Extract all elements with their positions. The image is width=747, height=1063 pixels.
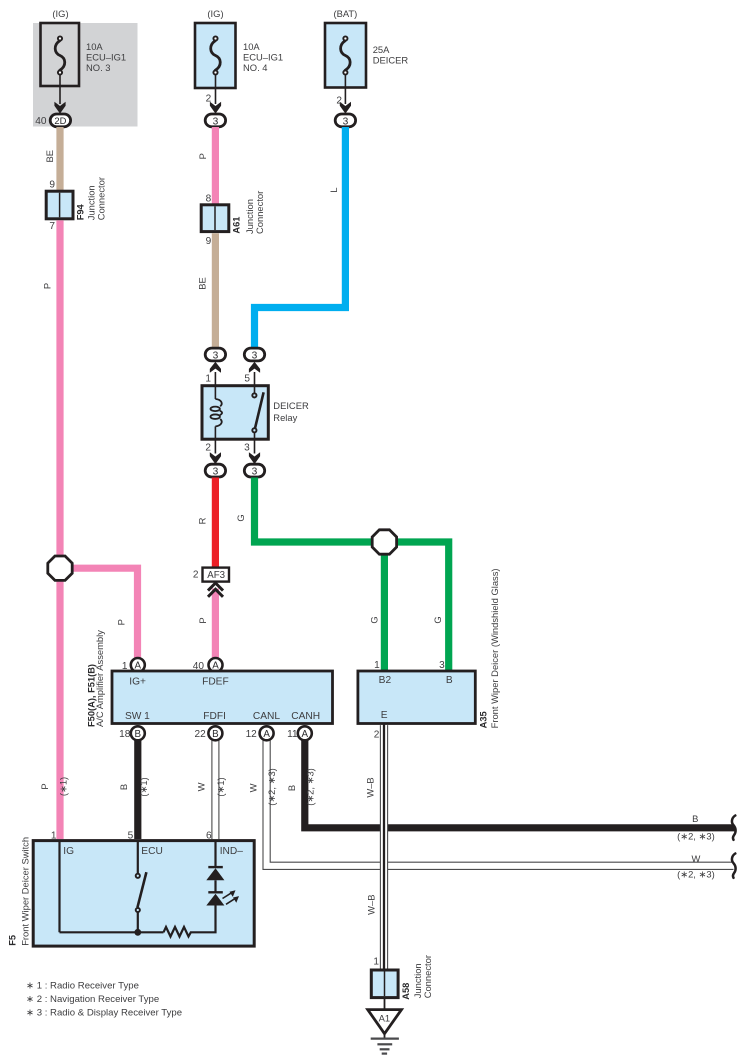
svg-text:IG+: IG+ — [129, 677, 146, 688]
splice octagon (pink) — [48, 556, 72, 580]
svg-text:∗ 1 : Radio Receiver Type: ∗ 1 : Radio Receiver Type — [26, 981, 139, 992]
relay pin2 arrow + node 3 — [205, 443, 225, 478]
svg-text:B: B — [118, 784, 129, 790]
svg-text:2: 2 — [205, 443, 211, 454]
svg-text:P: P — [42, 283, 53, 289]
svg-text:CANL: CANL — [253, 711, 281, 722]
svg-text:F94: F94 — [76, 203, 86, 220]
svg-text:G: G — [235, 514, 246, 521]
svg-text:3: 3 — [213, 116, 219, 127]
resistor — [164, 906, 216, 937]
svg-text:10A: 10A — [243, 41, 260, 52]
svg-text:A35: A35 — [478, 711, 488, 728]
node 3 (col3) — [335, 114, 355, 127]
svg-text:Front Wiper Deicer (Windshield: Front Wiper Deicer (Windshield Glass) — [489, 568, 500, 728]
svg-text:SW 1: SW 1 — [125, 711, 150, 722]
svg-text:ECU: ECU — [141, 846, 163, 857]
svg-text:A61: A61 — [232, 217, 242, 234]
junction connector A61 — [201, 191, 265, 247]
svg-text:(∗2, ∗3): (∗2, ∗3) — [677, 831, 715, 842]
svg-text:P: P — [39, 783, 50, 789]
svg-text:ECU–IG1: ECU–IG1 — [243, 51, 283, 62]
wire L (blue) — [255, 127, 346, 349]
svg-text:NO. 4: NO. 4 — [243, 62, 268, 73]
wire G (green) from relay to A35 — [235, 478, 449, 672]
svg-text:(∗1): (∗1) — [57, 777, 68, 796]
svg-text:R: R — [197, 517, 208, 524]
svg-text:CANH: CANH — [291, 711, 320, 722]
svg-text:DEICER: DEICER — [273, 400, 309, 411]
svg-text:5: 5 — [244, 374, 250, 385]
svg-text:3: 3 — [252, 351, 258, 362]
svg-text:Connector: Connector — [422, 955, 433, 998]
node 2D — [35, 114, 70, 127]
pin 40 circle A (FDEF) — [193, 658, 223, 672]
svg-text:(∗2, ∗3): (∗2, ∗3) — [266, 768, 277, 806]
svg-text:W–B: W–B — [365, 777, 376, 797]
svg-text:1: 1 — [374, 660, 380, 671]
node 3 (col2) — [205, 114, 225, 127]
svg-text:11: 11 — [287, 729, 298, 740]
svg-text:(IG): (IG) — [52, 8, 68, 19]
connector arrow pin 2 — [206, 75, 221, 114]
svg-text:1: 1 — [373, 957, 379, 968]
pin 12 circle A (CANL) — [246, 726, 274, 740]
svg-text:2: 2 — [336, 96, 342, 107]
svg-text:P: P — [116, 619, 127, 625]
ground lead — [384, 998, 386, 1010]
relay DEICER — [202, 386, 309, 440]
svg-text:3: 3 — [343, 116, 349, 127]
svg-text:12: 12 — [246, 729, 258, 740]
relay coil — [211, 399, 223, 454]
svg-text:2: 2 — [206, 94, 212, 105]
svg-text:∗ 2 : Navigation Receiver Type: ∗ 2 : Navigation Receiver Type — [26, 994, 159, 1005]
svg-text:(∗2, ∗3): (∗2, ∗3) — [677, 869, 715, 880]
svg-text:22: 22 — [194, 729, 206, 740]
wire W (CANL) — [248, 741, 736, 880]
shield chevrons — [208, 583, 223, 597]
svg-text:7: 7 — [49, 221, 55, 232]
svg-text:A58: A58 — [401, 983, 411, 1000]
svg-text:B2: B2 — [379, 675, 392, 686]
pin 18 circle B (SW1) — [119, 726, 145, 740]
wire B (SW1 to switch) — [118, 741, 149, 840]
wire W (FDFI to IND-) — [196, 741, 226, 840]
svg-text:BE: BE — [197, 277, 208, 290]
svg-text:IND–: IND– — [220, 846, 244, 857]
wire P col1 down to switch — [39, 220, 68, 839]
svg-text:B: B — [446, 675, 453, 686]
svg-text:1: 1 — [205, 374, 211, 385]
svg-text:G: G — [368, 616, 379, 623]
wire B (CANH) — [286, 741, 735, 842]
svg-text:(BAT): (BAT) — [334, 8, 358, 19]
svg-text:P: P — [197, 153, 208, 159]
LED diode chain — [206, 842, 239, 906]
svg-text:3: 3 — [244, 443, 250, 454]
svg-text:NO. 3: NO. 3 — [86, 62, 111, 73]
svg-text:B: B — [286, 785, 297, 791]
svg-text:3: 3 — [213, 467, 219, 478]
svg-text:DEICER: DEICER — [373, 54, 409, 65]
svg-text:B: B — [135, 729, 142, 740]
connector arrow pin 2 (BAT) — [336, 75, 351, 114]
svg-text:25A: 25A — [373, 44, 390, 55]
svg-text:A1: A1 — [379, 1012, 390, 1023]
relay switch — [252, 392, 263, 453]
svg-text:ECU–IG1: ECU–IG1 — [86, 51, 126, 62]
svg-text:18: 18 — [119, 729, 131, 740]
svg-text:(∗2, ∗3): (∗2, ∗3) — [305, 768, 316, 806]
svg-text:P: P — [197, 617, 208, 623]
svg-text:L: L — [328, 187, 339, 192]
front wiper deicer switch box F5 — [8, 830, 255, 946]
connector AF3 — [193, 568, 229, 582]
svg-text:(IG): (IG) — [207, 8, 223, 19]
fuse 25A DEICER — [325, 8, 408, 88]
A35 front wiper deicer box — [358, 568, 500, 740]
svg-text:3: 3 — [213, 351, 219, 362]
junction connector F94 — [46, 177, 106, 232]
svg-text:3: 3 — [439, 660, 445, 671]
svg-text:2D: 2D — [54, 115, 66, 126]
svg-text:A: A — [263, 729, 270, 740]
wire P to FDEF — [197, 589, 216, 659]
node 3 above relay pin5 — [244, 348, 264, 392]
svg-text:∗ 3 : Radio & Display Receiver: ∗ 3 : Radio & Display Receiver Type — [26, 1007, 182, 1018]
svg-text:W–B: W–B — [366, 895, 377, 915]
svg-text:Relay: Relay — [273, 412, 297, 423]
svg-text:(∗1): (∗1) — [215, 777, 226, 796]
fuse block shading — [33, 23, 138, 127]
wire BE col1 — [44, 127, 60, 192]
svg-text:9: 9 — [49, 179, 55, 190]
svg-text:FDFI: FDFI — [203, 711, 226, 722]
fuse 10A ECU-IG1 NO.4 — [195, 8, 283, 88]
svg-text:F5: F5 — [8, 935, 18, 946]
wire P col2 — [197, 127, 216, 206]
svg-text:G: G — [432, 616, 443, 623]
node 3 above relay pin1 — [205, 348, 225, 399]
svg-text:B: B — [212, 729, 219, 740]
ground symbol — [371, 1034, 399, 1054]
switch internal wiring — [60, 842, 164, 932]
splice octagon (green) — [372, 530, 396, 554]
wire P branch to IG+ — [60, 568, 138, 658]
svg-text:AF3: AF3 — [207, 570, 225, 581]
svg-text:(∗1): (∗1) — [138, 777, 149, 796]
pin 1 circle A (IG+) — [122, 658, 145, 672]
svg-text:9: 9 — [206, 236, 212, 247]
svg-text:E: E — [381, 710, 388, 721]
connector arrow to 2D — [54, 75, 65, 114]
junction dot — [134, 929, 141, 936]
wire W-B (E to A58) — [365, 724, 388, 971]
svg-text:2: 2 — [193, 569, 199, 580]
svg-text:W: W — [196, 782, 207, 791]
svg-text:Connector: Connector — [254, 191, 265, 234]
wire BE col2 — [197, 233, 216, 348]
wire G branch to B2 — [368, 542, 384, 672]
svg-text:IG: IG — [63, 846, 74, 857]
svg-text:10A: 10A — [86, 41, 103, 52]
svg-text:Front Wiper Deicer Switch: Front Wiper Deicer Switch — [19, 837, 30, 946]
switch contacts — [136, 874, 140, 878]
fuse 10A ECU-IG1 NO.3 — [41, 8, 127, 86]
svg-text:W: W — [691, 853, 700, 864]
ground triangle A1 — [368, 1010, 402, 1034]
A/C amplifier assembly box — [86, 630, 332, 727]
svg-text:8: 8 — [206, 194, 212, 205]
junction connector A58 — [371, 955, 433, 1000]
svg-text:A/C Amplifier Assembly: A/C Amplifier Assembly — [94, 630, 105, 727]
notes — [26, 981, 182, 1019]
svg-text:BE: BE — [44, 150, 55, 163]
relay pin3 arrow + node 3 — [244, 443, 265, 478]
svg-text:3: 3 — [252, 467, 258, 478]
svg-text:FDEF: FDEF — [202, 677, 229, 688]
wire R (red) — [197, 478, 216, 568]
svg-text:40: 40 — [35, 116, 47, 127]
svg-text:A: A — [302, 729, 309, 740]
pin 22 circle B (FDFI) — [194, 726, 222, 740]
svg-text:2: 2 — [374, 729, 380, 740]
pin 11 circle A (CANH) — [287, 726, 312, 740]
svg-text:Connector: Connector — [96, 177, 107, 220]
svg-text:B: B — [692, 813, 698, 824]
svg-text:W: W — [248, 783, 259, 792]
